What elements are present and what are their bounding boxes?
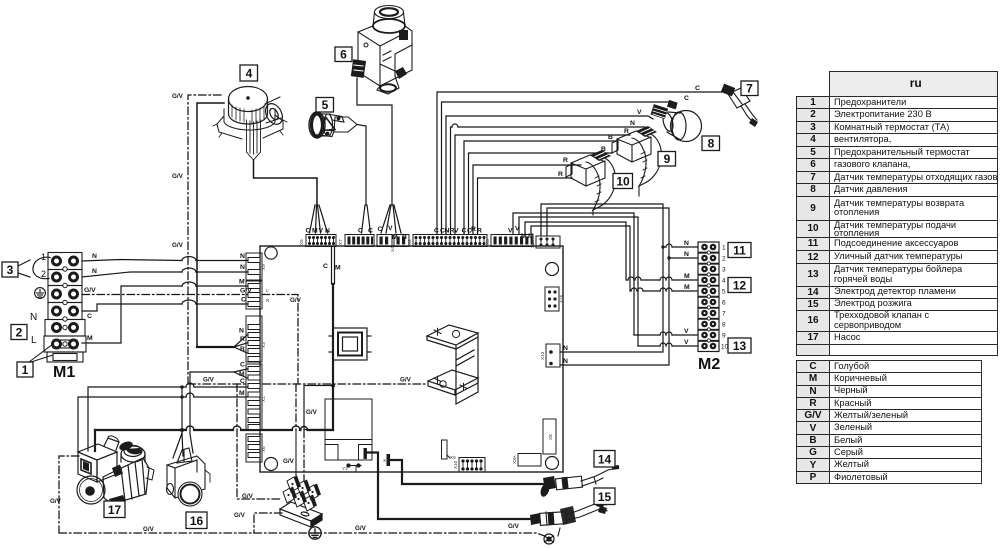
svg-text:1: 1	[41, 252, 46, 262]
wire M X8 to M2.4	[525, 222, 628, 280]
svg-text:R: R	[477, 228, 482, 235]
connector X14	[536, 236, 560, 248]
svg-text:N: N	[684, 240, 689, 247]
left edge connector X3	[246, 316, 262, 362]
connector X8 top	[491, 235, 533, 247]
svg-text:G/V: G/V	[290, 297, 302, 304]
svg-text:N: N	[684, 251, 689, 258]
wire fan ribbon to X5	[254, 160, 318, 205]
wire N riser X14 to edge connector via M2.1	[541, 204, 663, 352]
svg-text:N: N	[266, 298, 269, 303]
svg-text:C: C	[323, 263, 328, 270]
thick wire flag to electrode 14	[391, 460, 547, 484]
svg-text:G/V: G/V	[172, 173, 184, 180]
svg-text:M: M	[684, 284, 690, 291]
svg-text:R: R	[240, 336, 245, 343]
wire C pump to X1	[194, 386, 247, 388]
svg-text:L: L	[31, 335, 37, 346]
svg-text:V: V	[637, 109, 642, 116]
svg-text:8: 8	[722, 322, 726, 329]
svg-text:2: 2	[16, 326, 23, 340]
svg-text:3: 3	[7, 263, 14, 277]
svg-text:G/V: G/V	[172, 93, 184, 100]
svg-text:C: C	[306, 228, 311, 235]
svg-text:C: C	[241, 297, 246, 304]
svg-text:9: 9	[664, 152, 671, 166]
svg-text:X4: X4	[390, 246, 395, 252]
wire R to comp10 lower	[478, 178, 573, 234]
three way valve component 16	[167, 448, 211, 506]
bracket screws	[452, 330, 459, 337]
svg-text:G/V: G/V	[84, 287, 96, 294]
svg-text:M: M	[684, 273, 690, 280]
wire N riser X14 to edge connector via M2.2	[547, 208, 669, 365]
earth G/V dash-dot bottom rail	[59, 533, 545, 536]
earth symbol at faston block	[309, 527, 321, 539]
svg-text:10: 10	[721, 344, 729, 351]
PCB mounting holes	[265, 247, 559, 471]
M1 M2 labels	[53, 356, 720, 381]
connector X4 (gas valve)	[377, 235, 409, 247]
wire V to comp8	[446, 116, 653, 234]
pressure sensor component 8	[661, 111, 701, 142]
svg-text:6: 6	[722, 300, 726, 307]
svg-text:V: V	[508, 228, 513, 235]
svg-text:N: N	[239, 328, 244, 335]
svg-text:N: N	[240, 253, 245, 260]
wire C M1.4 to PCB	[82, 304, 182, 311]
wire N stub M2.1	[663, 246, 666, 248]
svg-text:4: 4	[246, 67, 253, 81]
svg-text:X1: X1	[261, 396, 266, 402]
svg-text:R: R	[558, 171, 563, 178]
svg-text:N: N	[92, 268, 97, 275]
svg-text:15: 15	[598, 490, 612, 504]
earth G/V dash-dot M1 row3	[82, 295, 298, 385]
X3A box bottom right	[518, 454, 541, 467]
svg-text:X8: X8	[485, 239, 490, 245]
svg-text:G/V: G/V	[203, 377, 215, 384]
thick mains wire X5 down to bus	[332, 284, 334, 430]
pump component 17	[77, 436, 154, 504]
small rotated connector designators	[261, 239, 564, 471]
svg-text:G/V: G/V	[234, 512, 246, 519]
M1 thermostat loop	[18, 257, 50, 278]
wire N stub M2.2	[669, 257, 698, 259]
svg-text:M: M	[335, 265, 341, 272]
svg-text:B: B	[601, 146, 606, 153]
svg-text:M: M	[521, 233, 527, 240]
svg-text:1: 1	[22, 363, 29, 377]
wire B to comp9 lower	[469, 153, 613, 234]
wire bundle C M to X1 upper	[190, 371, 234, 373]
wire N M1.1 to PCB	[82, 260, 182, 262]
svg-text:X5: X5	[299, 239, 304, 245]
svg-text:C: C	[378, 226, 383, 233]
overheat sensor component 5	[309, 112, 357, 138]
svg-text:N: N	[325, 228, 330, 235]
svg-text:M: M	[392, 234, 398, 241]
svg-text:N: N	[630, 120, 635, 127]
svg-text:G/V: G/V	[306, 409, 318, 416]
wire C to comp8	[442, 102, 677, 234]
earth faston block	[280, 502, 322, 527]
svg-text:6: 6	[340, 48, 347, 62]
svg-text:5: 5	[722, 289, 726, 296]
svg-text:G/V: G/V	[172, 242, 184, 249]
earth G/V dash-dot upper branch	[295, 384, 297, 430]
svg-text:7: 7	[746, 82, 753, 96]
svg-text:C: C	[684, 95, 689, 102]
svg-text:12: 12	[733, 279, 747, 293]
earth G/V dash-dot to bracket	[188, 383, 428, 385]
svg-text:N: N	[240, 264, 245, 271]
wire comp5 to X7	[357, 125, 366, 206]
svg-text:X16: X16	[559, 294, 564, 303]
wire comp6 to X4	[357, 78, 392, 205]
svg-text:17: 17	[108, 503, 122, 517]
number callout boxes	[2, 47, 758, 529]
svg-text:G/V: G/V	[508, 523, 520, 530]
wire N to comp8	[451, 127, 453, 234]
svg-text:C: C	[695, 85, 700, 92]
svg-text:X14: X14	[530, 239, 535, 248]
earth G/V dash-dot branch to faston block	[237, 384, 281, 499]
svg-text:C: C	[87, 313, 92, 320]
bracket isometric	[427, 325, 478, 404]
wire V X8 to M2.10	[519, 217, 638, 346]
G/V labels	[50, 93, 520, 533]
terminal strip M2	[698, 242, 719, 352]
thick 230V bus	[95, 429, 186, 431]
earth G/V solid wire to faston block	[291, 430, 296, 497]
wire to valve 16	[189, 372, 191, 434]
svg-text:C: C	[240, 378, 245, 385]
svg-text:X13: X13	[540, 351, 545, 360]
PCB main board	[260, 246, 563, 472]
gas valve component 6	[358, 6, 412, 95]
svg-text:M: M	[528, 233, 534, 240]
svg-text:R: R	[624, 128, 629, 135]
svg-text:16: 16	[190, 514, 204, 528]
svg-text:R: R	[471, 226, 476, 233]
return temp sensor component 9	[612, 131, 661, 196]
connector X5 (fan)	[306, 235, 336, 247]
svg-text:R: R	[563, 157, 568, 164]
ignition electrode 15	[540, 502, 607, 536]
svg-text:1: 1	[722, 245, 726, 252]
svg-text:G/V: G/V	[240, 288, 252, 295]
svg-text:V: V	[684, 328, 689, 335]
X16 accessory connector on PCB	[545, 287, 559, 311]
svg-text:G/V: G/V	[283, 458, 295, 465]
svg-text:X3A: X3A	[512, 454, 517, 464]
relay box on PCB	[304, 386, 333, 430]
svg-text:C: C	[358, 228, 363, 235]
svg-text:V: V	[515, 226, 520, 233]
flow temp sensor component 10	[566, 155, 615, 215]
svg-text:13: 13	[733, 339, 747, 353]
svg-text:X6: X6	[261, 446, 266, 452]
svg-text:G/V: G/V	[143, 526, 155, 533]
transistor Y2 link	[347, 464, 361, 472]
svg-text:C: C	[462, 228, 467, 235]
wire colour labels	[84, 85, 700, 397]
svg-text:R: R	[240, 346, 245, 353]
svg-text:B: B	[608, 134, 613, 141]
flame electrode 14	[555, 469, 615, 490]
transformer on PCB	[329, 328, 371, 360]
svg-text:N: N	[30, 312, 37, 323]
wire C to comp7	[437, 92, 726, 234]
fan component 4	[213, 87, 287, 140]
left edge connector group A	[246, 253, 262, 280]
svg-text:V: V	[388, 225, 393, 232]
wire M pump to X1	[194, 396, 247, 398]
svg-text:G/V: G/V	[242, 493, 254, 500]
M1 terminal number labels	[30, 252, 46, 346]
svg-text:L': L'	[266, 288, 270, 293]
svg-text:4: 4	[722, 278, 726, 285]
svg-text:M: M	[239, 279, 245, 286]
wire N M1.2 to PCB	[82, 272, 182, 277]
left edge connector group B	[246, 281, 262, 309]
svg-text:Y2: Y2	[342, 466, 348, 471]
connector X2 (long sensor strip)	[413, 235, 487, 247]
left edge connector X1	[246, 364, 262, 430]
X8 tall box right	[543, 419, 556, 454]
wire R to comp10	[473, 165, 581, 234]
connector X7	[345, 235, 374, 247]
M2 pin numbers	[721, 245, 729, 351]
svg-text:G/V: G/V	[400, 377, 412, 384]
svg-text:10: 10	[616, 175, 630, 189]
svg-text:X3: X3	[261, 342, 266, 348]
wire junction riser	[181, 387, 183, 430]
svg-text:V: V	[684, 339, 689, 346]
svg-text:8: 8	[708, 137, 715, 151]
thick pump drop	[94, 430, 96, 451]
connector X10 bottom	[459, 458, 485, 473]
wire R to comp9	[455, 135, 630, 234]
flag terminal X1a	[364, 448, 367, 459]
svg-text:X8: X8	[548, 434, 553, 440]
svg-text:X7: X7	[338, 239, 343, 245]
X9 small part bottom	[442, 440, 451, 459]
svg-text:2: 2	[722, 256, 726, 263]
svg-text:7: 7	[722, 311, 726, 318]
wire M X8 to M2.5	[531, 226, 631, 291]
svg-text:M: M	[239, 390, 245, 397]
svg-text:X1: X1	[383, 458, 389, 463]
svg-text:C: C	[368, 228, 373, 235]
earth G/V dash-dot pump to bottom rail	[59, 456, 79, 533]
left edge connector X6	[246, 434, 262, 462]
svg-text:C: C	[240, 362, 245, 369]
colour legend table	[796, 360, 982, 484]
svg-text:G/V: G/V	[50, 498, 62, 505]
wire C/M pair X5 down	[331, 247, 333, 284]
earth G/V dash-dot branch 2	[303, 430, 305, 492]
svg-text:N: N	[92, 253, 97, 260]
svg-text:C: C	[434, 228, 439, 235]
svg-text:X9: X9	[261, 264, 266, 270]
svg-text:N: N	[563, 345, 568, 352]
svg-text:11: 11	[733, 244, 746, 258]
terminal block M1	[44, 253, 86, 363]
wire V X8 to M2.9	[513, 213, 634, 335]
svg-text:14: 14	[598, 453, 612, 467]
svg-text:X9: X9	[450, 455, 456, 460]
svg-text:V: V	[319, 228, 324, 235]
svg-text:5: 5	[322, 98, 329, 112]
edge connector N/N on PCB right	[546, 344, 560, 367]
junction dots	[180, 385, 184, 389]
svg-text:M: M	[312, 228, 318, 235]
svg-text:N: N	[563, 358, 568, 365]
svg-text:9: 9	[722, 333, 726, 340]
svg-text:3: 3	[722, 267, 726, 274]
svg-text:2: 2	[41, 269, 46, 279]
svg-text:M: M	[239, 371, 245, 378]
wire B to comp9	[464, 141, 617, 234]
earth G/V dash-dot faston to rail	[254, 513, 282, 533]
svg-text:G/V: G/V	[355, 525, 367, 532]
svg-text:X10: X10	[453, 460, 458, 469]
wire bundle N R R from fan to X3	[197, 103, 224, 347]
flue gas sensor component 7	[728, 88, 757, 123]
svg-text:M: M	[87, 335, 93, 342]
M1 fuse pointer lines	[29, 344, 53, 362]
earth G/V dash-dot fan to bottom	[188, 95, 221, 384]
svg-text:M2: M2	[698, 356, 720, 373]
wire M M1.L to PCB	[82, 286, 182, 343]
legend table ru	[796, 71, 998, 356]
thick wire flag to electrode 15	[367, 453, 533, 520]
M1 earth symbol	[35, 288, 46, 299]
earth washer electrode 15	[544, 534, 554, 544]
flag terminal X1b	[387, 454, 391, 466]
svg-text:X2: X2	[407, 239, 412, 245]
svg-text:M1: M1	[53, 364, 75, 381]
svg-text:V: V	[454, 228, 459, 235]
